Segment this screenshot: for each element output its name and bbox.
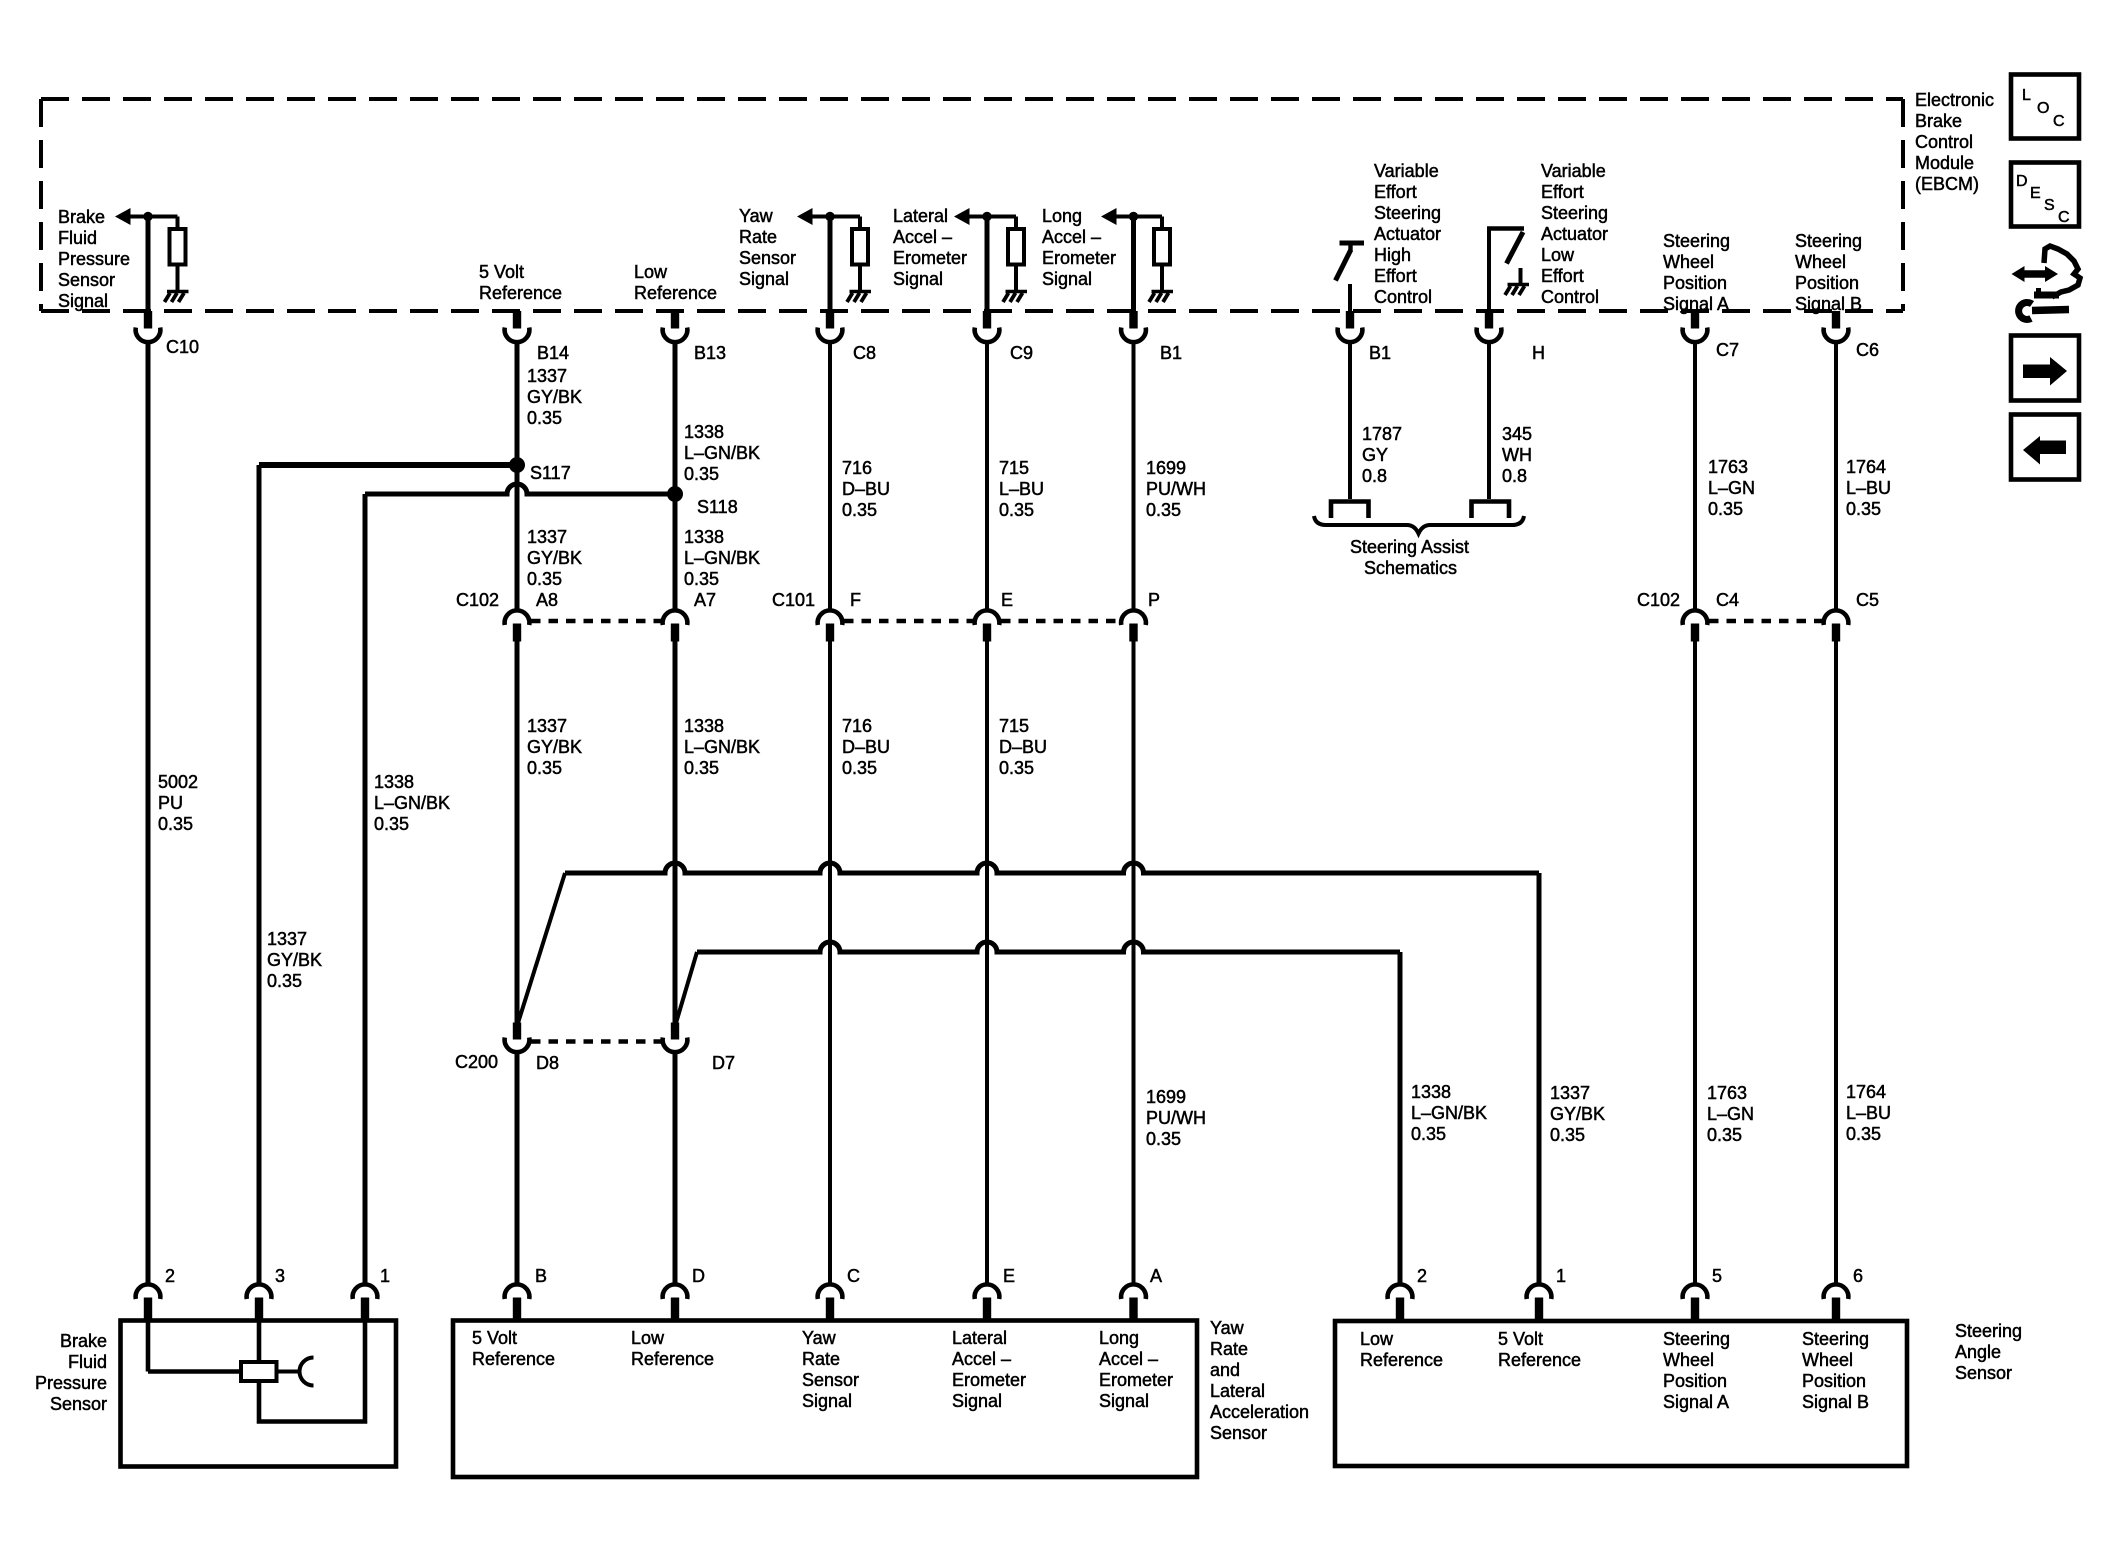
wire label 1764 upper [1846,457,1891,519]
connector yaw sensor pin D [663,1284,688,1320]
svg-text:716: 716 [842,458,872,478]
wire 1337 GY/BK down to brake sensor pin 3 [257,465,262,1284]
connector C101 pin P [1121,610,1146,641]
brake fluid pressure sensor signal output arrow [115,208,178,230]
svg-text:Actuator: Actuator [1541,224,1608,244]
svg-text:L–GN/BK: L–GN/BK [684,737,760,757]
svg-text:S118: S118 [697,497,738,517]
wire 1337 C200 D8 to sensor pin B [515,1053,520,1285]
wire 1338 drop to steering angle sensor pin 2 [1398,952,1403,1284]
svg-text:Steering: Steering [1663,231,1730,251]
svg-text:Schematics: Schematics [1364,558,1457,578]
svg-text:0.35: 0.35 [842,758,877,778]
svg-text:L–GN/BK: L–GN/BK [684,548,760,568]
svg-text:Accel –: Accel – [952,1349,1011,1369]
svg-text:B1: B1 [1369,343,1391,363]
svg-text:Reference: Reference [479,283,562,303]
svg-text:L–GN: L–GN [1708,478,1755,498]
svg-text:1764: 1764 [1846,457,1886,477]
svg-text:GY/BK: GY/BK [267,950,322,970]
svg-text:(EBCM): (EBCM) [1915,174,1979,194]
svg-text:Erometer: Erometer [952,1370,1026,1390]
pin label C7 [1716,340,1739,360]
svg-text:C200: C200 [455,1052,498,1072]
svg-text:Lateral: Lateral [952,1328,1007,1348]
svg-text:L–GN/BK: L–GN/BK [684,443,760,463]
svg-text:C101: C101 [772,590,815,610]
connector brake sensor pin 3 [247,1284,272,1320]
svg-text:Control: Control [1374,287,1432,307]
connector steering angle sensor pin 5 [1683,1284,1708,1320]
resistor (pressure sensing element) [241,1362,277,1381]
svg-text:Effort: Effort [1541,266,1584,286]
label electronic brake control module [1915,90,1994,194]
svg-text:L–GN/BK: L–GN/BK [1411,1103,1487,1123]
terminal cup (1787 GY wire end) [1331,502,1369,519]
pin label E [1001,590,1013,610]
wire 1787 GY to steering assist [1348,343,1352,499]
svg-text:1337: 1337 [267,929,307,949]
label lateral accelerometer (sensor) [952,1328,1026,1411]
svg-text:2: 2 [165,1266,175,1286]
wire label 716 upper [842,458,890,520]
svg-text:L–BU: L–BU [999,479,1044,499]
box brake fluid pressure sensor [121,1321,397,1467]
ground rake (low effort control) [1505,285,1529,296]
label brake fluid pressure sensor [35,1331,107,1414]
svg-text:Control: Control [1541,287,1599,307]
splice S117 [509,457,525,473]
svg-text:1763: 1763 [1708,457,1748,477]
wire diagonal bus1 to C200 D8 [518,873,565,1023]
wire C10 inside EBCM [146,217,151,313]
box yaw rate and lateral acceleration sensor [453,1321,1197,1478]
svg-text:Position: Position [1663,1371,1727,1391]
svg-text:C: C [2058,209,2070,226]
svg-text:Module: Module [1915,153,1974,173]
svg-text:PU/WH: PU/WH [1146,1108,1206,1128]
svg-text:Sensor: Sensor [739,248,796,268]
svg-text:Steering: Steering [1541,203,1608,223]
label long accelerometer signal [1042,206,1116,289]
icon back arrow button [2011,415,2079,480]
svg-text:C10: C10 [166,337,199,357]
svg-text:D–BU: D–BU [999,737,1047,757]
svg-text:Sensor: Sensor [58,270,115,290]
connector C102 pin C4 [1683,610,1708,641]
svg-text:0.35: 0.35 [999,758,1034,778]
svg-text:Wheel: Wheel [1663,1350,1714,1370]
switch (variable effort steering high effort control) [1336,241,1365,313]
wire 1338 B13 to C102 [673,343,678,610]
svg-text:B: B [535,1266,547,1286]
pin label B1 (VES) [1369,343,1391,363]
connector pin C9 at EBCM [975,311,1000,342]
connector brake sensor pin 1 [353,1284,378,1320]
pin number 5 (SAS) [1712,1266,1722,1286]
yaw rate sensor signal arrow [797,208,860,230]
wire label 1338 (bus2 drop) [1411,1082,1487,1144]
svg-text:Steering: Steering [1955,1321,2022,1341]
svg-text:Reference: Reference [472,1349,555,1369]
label C101 [772,590,815,610]
pin label A7 [694,590,716,610]
connector C101 pin E [975,610,1000,641]
splice S118 [667,486,683,502]
label steering assist [1350,537,1469,557]
wire label 1337 (below C102) [527,716,582,778]
svg-text:0.35: 0.35 [1707,1125,1742,1145]
svg-text:D–BU: D–BU [842,737,890,757]
svg-text:C102: C102 [456,590,499,610]
svg-text:715: 715 [999,716,1029,736]
svg-text:1763: 1763 [1707,1083,1747,1103]
svg-text:D: D [692,1266,705,1286]
svg-text:C5: C5 [1856,590,1879,610]
svg-text:1: 1 [380,1266,390,1286]
svg-text:0.35: 0.35 [158,814,193,834]
svg-text:Sensor: Sensor [1955,1363,2012,1383]
svg-text:PU: PU [158,793,183,813]
wire 716 C8 to C101 [828,343,832,610]
wire resistor bottom to pin1 [259,1320,365,1422]
label yaw rate and lateral acceleration sensor [1210,1318,1309,1443]
icon DESC button [2011,163,2079,227]
pin label D7 [712,1053,735,1073]
wire label 1764 lower [1846,1082,1891,1144]
svg-text:0.35: 0.35 [1146,1129,1181,1149]
pin label A8 [536,590,558,610]
svg-text:O: O [2037,100,2049,117]
svg-text:S: S [2044,197,2055,214]
connector pin B1 (VES high) at EBCM [1338,311,1363,342]
svg-text:Variable: Variable [1541,161,1606,181]
connector steering angle sensor pin 1 [1527,1284,1552,1320]
sensor wiper fork symbol [277,1358,314,1386]
svg-text:High: High [1374,245,1411,265]
svg-text:1337: 1337 [527,527,567,547]
pin label C9 [1010,343,1033,363]
label steering wheel position B (SAS) [1802,1329,1869,1412]
ground (yaw rate) [847,292,871,303]
connector C101 pin F [818,610,843,641]
label steering wheel position A (SAS) [1663,1329,1730,1412]
svg-text:Long: Long [1042,206,1082,226]
svg-text:1338: 1338 [684,422,724,442]
svg-text:Wheel: Wheel [1663,252,1714,272]
svg-text:Accel –: Accel – [893,227,952,247]
wire 345 WH to steering assist [1487,343,1491,499]
svg-text:Position: Position [1663,273,1727,293]
svg-text:WH: WH [1502,445,1532,465]
svg-text:0.35: 0.35 [1846,1124,1881,1144]
svg-text:0.35: 0.35 [684,569,719,589]
svg-text:Brake: Brake [60,1331,107,1351]
svg-text:5: 5 [1712,1266,1722,1286]
brace steering assist schematics [1314,516,1524,534]
wire label 345 [1502,424,1532,486]
wire 716 to yaw sensor pin C [828,641,832,1284]
svg-text:Rate: Rate [1210,1339,1248,1359]
wire B1 inside EBCM [1131,217,1136,313]
connector pin H at EBCM [1477,311,1502,342]
svg-text:1787: 1787 [1362,424,1402,444]
svg-text:Signal A: Signal A [1663,1392,1729,1412]
svg-text:0.35: 0.35 [527,569,562,589]
svg-text:C4: C4 [1716,590,1739,610]
wire 1699 B1 to C101 [1132,343,1136,610]
label low reference [634,262,717,303]
svg-text:1337: 1337 [1550,1083,1590,1103]
svg-text:A8: A8 [536,590,558,610]
label lateral accelerometer signal [893,206,967,289]
wire C8 inside EBCM [828,217,833,313]
svg-text:Position: Position [1802,1371,1866,1391]
svg-text:Steering: Steering [1802,1329,1869,1349]
connector brake sensor pin 2 [136,1284,161,1320]
svg-text:Accel –: Accel – [1099,1349,1158,1369]
svg-text:C102: C102 [1637,590,1680,610]
connector yaw sensor pin C [818,1284,843,1320]
svg-text:Signal: Signal [739,269,789,289]
wire 1764 C6 to C102 [1834,343,1838,610]
connector pin B1 at EBCM [1121,311,1146,342]
pin number 2 (brake) [165,1266,175,1286]
link C101 F-E [844,619,973,623]
label schematics [1364,558,1457,578]
svg-text:Electronic: Electronic [1915,90,1994,110]
svg-text:Brake: Brake [58,207,105,227]
svg-text:S117: S117 [530,463,571,483]
svg-text:L–GN: L–GN [1707,1104,1754,1124]
svg-text:Effort: Effort [1374,182,1417,202]
svg-text:5 Volt: 5 Volt [479,262,524,282]
svg-text:5 Volt: 5 Volt [472,1328,517,1348]
label 5 volt reference (sensor) [472,1328,555,1369]
svg-text:L–BU: L–BU [1846,1103,1891,1123]
wire bus 1337 (bus1) with hops [565,863,1539,873]
svg-text:Effort: Effort [1541,182,1584,202]
wire C9 inside EBCM [985,217,990,313]
svg-text:Signal: Signal [1042,269,1092,289]
svg-text:L–GN/BK: L–GN/BK [374,793,450,813]
svg-text:5002: 5002 [158,772,198,792]
wire 1337 drop to steering angle sensor pin 1 [1537,873,1542,1284]
svg-text:Steering: Steering [1795,231,1862,251]
svg-text:Acceleration: Acceleration [1210,1402,1309,1422]
wire label 1337 (below S117) [527,527,582,589]
svg-text:345: 345 [1502,424,1532,444]
svg-text:F: F [850,590,861,610]
pin number 2 (SAS) [1417,1266,1427,1286]
svg-text:Steering: Steering [1374,203,1441,223]
ground (lateral accelerometer) [1003,292,1027,303]
svg-text:0.35: 0.35 [1550,1125,1585,1145]
svg-text:D8: D8 [536,1053,559,1073]
svg-text:Pressure: Pressure [58,249,130,269]
svg-text:H: H [1532,343,1545,363]
connector C102 pin A7 [663,610,688,641]
svg-text:Effort: Effort [1374,266,1417,286]
svg-text:0.35: 0.35 [842,500,877,520]
wire label 1338 (pin1 drop) [374,772,450,834]
svg-text:6: 6 [1853,1266,1863,1286]
svg-text:Lateral: Lateral [1210,1381,1265,1401]
connector pin B13 at EBCM [663,311,688,342]
pin letter A [1150,1266,1162,1286]
pin label B14 [537,343,569,363]
svg-text:Erometer: Erometer [1099,1370,1173,1390]
wire 1337 A8 to C200 D8 [515,641,520,1023]
wire 1763 C7 to C102 [1693,343,1697,610]
wire label 1699 upper [1146,458,1206,520]
svg-text:0.35: 0.35 [1708,499,1743,519]
wire label 1338 (B13 upper) [684,422,760,484]
svg-text:Signal: Signal [802,1391,852,1411]
switch (variable effort steering low effort control) [1487,228,1524,312]
resistor (yaw rate) [852,229,868,265]
svg-text:B13: B13 [694,343,726,363]
svg-text:Low: Low [1541,245,1575,265]
pin label P [1148,590,1160,610]
pin label C6 [1856,340,1879,360]
pin letter D [692,1266,705,1286]
svg-text:1338: 1338 [684,527,724,547]
svg-text:Low: Low [1360,1329,1394,1349]
svg-text:1338: 1338 [1411,1082,1451,1102]
pin label C10 [166,337,199,357]
connector C102 pin A8 [505,610,530,641]
connector C200 pin D8 [505,1023,530,1053]
svg-text:1699: 1699 [1146,458,1186,478]
pin number 1 (brake) [380,1266,390,1286]
wire label 1337 (bus1 drop) [1550,1083,1605,1145]
svg-text:C9: C9 [1010,343,1033,363]
svg-text:1: 1 [1556,1266,1566,1286]
svg-text:Signal: Signal [952,1391,1002,1411]
long accelerometer signal arrow [1101,208,1162,230]
label steering wheel position signal A [1663,231,1730,314]
svg-text:Reference: Reference [631,1349,714,1369]
label 5 volt reference (SAS) [1498,1329,1581,1370]
pin label B13 [694,343,726,363]
link C101 E-P [1001,619,1119,623]
pin label H [1532,343,1545,363]
svg-text:1764: 1764 [1846,1082,1886,1102]
connector pin C8 at EBCM [818,311,843,342]
svg-text:A7: A7 [694,590,716,610]
wire label 1763 upper [1708,457,1755,519]
svg-text:Wheel: Wheel [1802,1350,1853,1370]
svg-text:C7: C7 [1716,340,1739,360]
label yaw rate sensor signal (sensor) [802,1328,859,1411]
label steering angle sensor [1955,1321,2022,1383]
wire 1338 C200 D7 to sensor pin D [673,1053,678,1285]
wire 1338 L-GN/BK down to brake sensor pin 1 [363,494,368,1284]
svg-text:Erometer: Erometer [893,248,967,268]
connector yaw sensor pin E [975,1284,1000,1320]
svg-text:Pressure: Pressure [35,1373,107,1393]
svg-text:E: E [1001,590,1013,610]
label VES high effort control [1374,161,1441,307]
svg-text:Reference: Reference [634,283,717,303]
svg-text:Variable: Variable [1374,161,1439,181]
svg-text:D7: D7 [712,1053,735,1073]
lateral accelerometer signal arrow [954,208,1016,230]
svg-text:Sensor: Sensor [802,1370,859,1390]
pin letter E [1003,1266,1015,1286]
svg-text:Lateral: Lateral [893,206,948,226]
svg-text:Signal: Signal [1099,1391,1149,1411]
pin label F [850,590,861,610]
wire 1337 B14 to C102 [515,343,520,610]
svg-text:715: 715 [999,458,1029,478]
resistor (lateral accelerometer) [1008,229,1024,265]
label low reference (sensor) [631,1328,714,1369]
svg-text:Brake: Brake [1915,111,1962,131]
svg-text:Signal B: Signal B [1802,1392,1869,1412]
label brake fluid pressure sensor signal [58,207,130,311]
svg-text:Signal: Signal [58,291,108,311]
svg-text:D: D [2016,173,2028,190]
wire 5002 PU (C10 to brake sensor pin 2) [146,343,151,1284]
svg-text:1337: 1337 [527,366,567,386]
svg-text:GY: GY [1362,445,1388,465]
wire label 1787 [1362,424,1402,486]
wire label 1337 (pin3 drop) [267,929,322,991]
svg-text:C6: C6 [1856,340,1879,360]
svg-text:0.35: 0.35 [1146,500,1181,520]
svg-text:0.8: 0.8 [1362,466,1387,486]
svg-text:Position: Position [1795,273,1859,293]
svg-text:0.35: 0.35 [527,408,562,428]
svg-text:A: A [1150,1266,1162,1286]
pin label C4 [1716,590,1739,610]
wire bus 1338 (bus2) with hops [697,942,1400,952]
svg-text:C8: C8 [853,343,876,363]
connector pin B14 at EBCM [505,311,530,342]
pin label C5 [1856,590,1879,610]
icon double arrow with outline and wrench [2012,246,2081,319]
svg-text:B14: B14 [537,343,569,363]
terminal cup (345 WH wire end) [1472,502,1510,519]
svg-text:E: E [2030,185,2041,202]
svg-text:0.35: 0.35 [374,814,409,834]
svg-text:Erometer: Erometer [1042,248,1116,268]
connector steering angle sensor pin 6 [1824,1284,1849,1320]
svg-text:Yaw: Yaw [802,1328,837,1348]
svg-text:Steering: Steering [1663,1329,1730,1349]
svg-text:716: 716 [842,716,872,736]
pin number 3 (brake) [275,1266,285,1286]
connector yaw sensor pin B [505,1284,530,1320]
box steering angle sensor [1335,1321,1907,1466]
link C102 C4-C5 [1709,619,1822,623]
wire label 1699 lower [1146,1087,1206,1149]
pin label D8 [536,1053,559,1073]
svg-text:Low: Low [631,1328,665,1348]
svg-text:1699: 1699 [1146,1087,1186,1107]
svg-text:1337: 1337 [527,716,567,736]
svg-text:Reference: Reference [1360,1350,1443,1370]
svg-text:1338: 1338 [684,716,724,736]
label C200 [455,1052,498,1072]
pin number 1 (SAS) [1556,1266,1566,1286]
connector yaw sensor pin A [1121,1284,1146,1320]
label S118 [697,497,738,517]
wire resistor to ground [1014,264,1018,291]
svg-text:0.35: 0.35 [684,464,719,484]
